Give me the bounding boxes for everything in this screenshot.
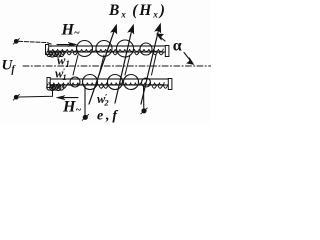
field arrow Bx 1 — [89, 25, 117, 105]
label Bx(Hx) — [108, 2, 167, 20]
svg-text:H~: H~ — [61, 22, 80, 40]
svg-text:α: α — [173, 38, 182, 55]
svg-text:H~: H~ — [62, 99, 81, 117]
label w1 — [57, 54, 70, 70]
terminal (bottom left) — [13, 95, 19, 101]
angle alpha arrow to axis — [184, 53, 194, 65]
label Uf — [2, 58, 17, 76]
label H~ (top) — [61, 22, 80, 40]
wire: winding connectors between cores — [73, 55, 156, 75]
field arrow Bx 2 — [115, 25, 134, 104]
label e,f — [97, 109, 118, 124]
core bar 1 (top core) — [46, 45, 169, 57]
wire: output lead e — [84, 86, 86, 115]
wire: lead from top-left terminal to core 1 — [19, 41, 52, 46]
core bar 2 (bottom core) — [47, 78, 172, 90]
wire: lead from bottom-left terminal to core 2 — [19, 86, 53, 97]
terminal e — [82, 114, 88, 120]
winding w1' small loops on bottom core — [47, 83, 168, 91]
field arrow Bx 3 — [141, 24, 161, 105]
svg-text:e,f: e,f — [97, 109, 118, 124]
winding w1 small loops on top core — [47, 49, 164, 57]
terminal f — [141, 108, 147, 114]
label w2' — [97, 92, 109, 108]
excitation arrow H~ (top, pointing right) — [57, 42, 77, 46]
svg-text:w′1: w′1 — [55, 66, 67, 82]
wire: output lead f — [143, 86, 145, 108]
label w1' — [55, 66, 67, 82]
angle alpha arrow to field direction — [157, 34, 166, 41]
label alpha — [173, 38, 182, 55]
svg-text:Bx(Hx): Bx(Hx) — [108, 2, 167, 20]
terminal (top left) — [13, 39, 19, 45]
axis dash-dot line — [23, 65, 211, 67]
winding w2 big loops on top core — [77, 40, 153, 57]
svg-text:w′2: w′2 — [97, 92, 109, 108]
winding w2' big loops on bottom core — [70, 75, 151, 90]
excitation arrow H~ (bottom, pointing left) — [57, 96, 79, 100]
svg-text:Uf: Uf — [2, 58, 17, 76]
label H~ (bottom) — [62, 99, 81, 117]
